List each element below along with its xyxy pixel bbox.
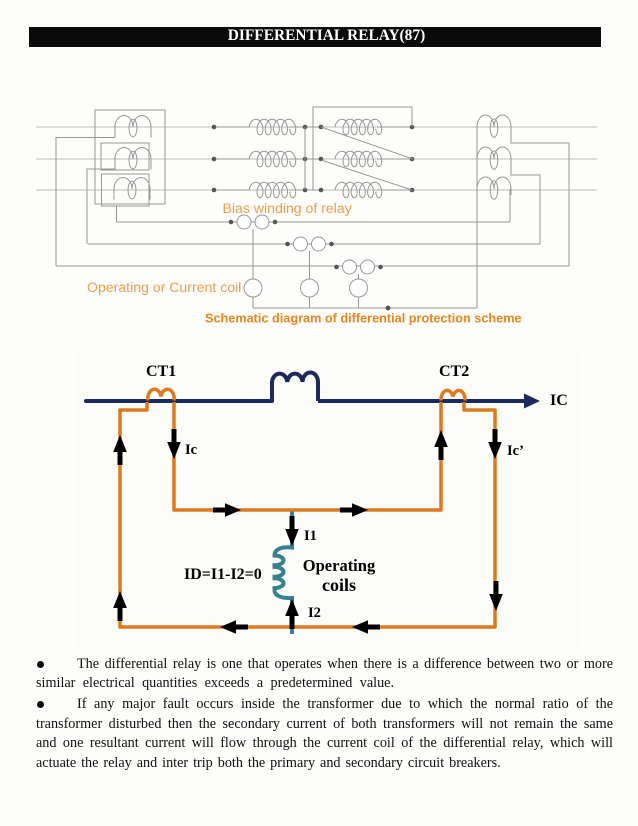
arrow up right inner [434, 430, 448, 460]
node dots left of coils [212, 125, 217, 193]
bias winding pair 3 [334, 260, 383, 274]
CT box left phase A [95, 110, 165, 204]
label CT1 [146, 363, 176, 380]
svg-text:Ic’: Ic’ [507, 443, 524, 459]
title bar DIFFERENTIAL RELAY(87) [29, 27, 601, 47]
bias winding pair 1 [229, 215, 278, 229]
operating coil 3 [350, 274, 368, 308]
wire orange right inner drop [292, 402, 441, 510]
label IC [550, 392, 568, 409]
diagram background panel [78, 352, 578, 648]
bullet text line 4 [36, 715, 613, 735]
operating coil 2 [301, 251, 319, 308]
wire phase line B [36, 158, 597, 160]
arrow up left outer bottom [113, 591, 127, 621]
node dot bottom bus [386, 306, 391, 311]
CT primary right phase B [477, 147, 511, 169]
label CT2 [439, 363, 469, 380]
CT box left phase B [101, 143, 149, 170]
arrow down right outer bottom [489, 581, 503, 611]
operating coil 1 [244, 229, 262, 308]
wire pilot line navy right [318, 399, 524, 403]
wire bias bus 3 [56, 265, 569, 267]
wire CT2 secondary to bus2 [87, 169, 115, 244]
svg-text:I2: I2 [308, 605, 321, 621]
relay coil right phase A [335, 119, 382, 135]
svg-text:Operating or Current coil: Operating or Current coil [87, 279, 241, 295]
svg-text:CT2: CT2 [439, 363, 469, 380]
svg-text:I1: I1 [304, 528, 317, 544]
arrow right mid left [213, 503, 241, 517]
label Bias winding of relay [223, 200, 353, 216]
restraint coil left phase A [249, 119, 296, 135]
wire phase line A [36, 126, 597, 128]
CT primary right phase A [477, 115, 511, 137]
label Operating or Current coil [87, 279, 241, 295]
svg-text:ID=I1-I2=0: ID=I1-I2=0 [184, 566, 262, 583]
wire bias bus 2 [88, 243, 540, 245]
wire pilot line navy left [86, 399, 272, 403]
arrow left bottom left [220, 620, 248, 634]
restraint coil left phase C [249, 182, 296, 198]
wire right CT3 secondary to bus1 [509, 189, 511, 222]
wire orange left outer loop [120, 402, 292, 627]
svg-text:IC: IC [550, 392, 568, 409]
wire operating bottom bus [253, 307, 477, 309]
label Ic-prime [507, 443, 524, 459]
bullet text line 2 [36, 674, 613, 694]
CT primary left phase C [114, 178, 150, 200]
wire delta bracket [313, 107, 412, 190]
CT primary right phase C [477, 177, 511, 199]
arrow down Ic current [167, 429, 181, 459]
wire right CT1 secondary to bus3 [511, 127, 569, 266]
label I1 [304, 528, 317, 544]
wire delta diagonal B-C [321, 160, 412, 190]
arrow right mid right [340, 503, 368, 517]
svg-text:CT1: CT1 [146, 363, 176, 380]
svg-text:Ic: Ic [185, 442, 198, 458]
wire CT3 secondary to bus1 [116, 206, 118, 222]
wire phase line C [36, 189, 597, 191]
wire delta diagonal A-B [321, 127, 413, 159]
transformer CT1 winding [148, 389, 174, 400]
bullet text line 1 [36, 655, 613, 675]
arrow up left outer top [113, 435, 127, 465]
relay coil right phase C [335, 182, 382, 198]
wire wye point vertical [304, 127, 306, 190]
wire right CT common leg [476, 127, 478, 308]
svg-text:Bias winding of relay: Bias winding of relay [223, 200, 353, 216]
svg-text:Schematic diagram of different: Schematic diagram of differential protec… [205, 312, 522, 326]
label I2 [308, 605, 321, 621]
inductor pilot middle [272, 373, 318, 402]
transformer CT2 winding [441, 390, 465, 400]
relay coil right phase B [335, 151, 382, 167]
label Ic [185, 442, 198, 458]
label Operating coils [303, 556, 376, 595]
wire orange right outer loop [292, 402, 495, 627]
arrow down I1 into coil [285, 516, 299, 546]
wire conductor segments dark [214, 127, 412, 190]
wire right CT2 secondary to bus2 [511, 159, 540, 244]
operating coil teal [275, 510, 293, 634]
CT box left phase C [102, 174, 150, 206]
arrowhead IC [524, 394, 540, 409]
node dots right of left coils [303, 125, 308, 193]
label ID=I1-I2=0 [184, 566, 262, 583]
CT primary left phase B [115, 148, 151, 170]
restraint coil left phase B [249, 151, 296, 167]
arrow up I2 into coil [285, 599, 299, 629]
svg-text:coils: coils [322, 575, 356, 595]
bias winding pair 2 [285, 237, 334, 251]
bullet text line 5 [36, 734, 613, 754]
svg-text:Operating: Operating [303, 556, 376, 575]
node dots left of right coils [319, 125, 324, 193]
wire bias bus 1 [117, 221, 511, 223]
arrow left bottom right [352, 620, 380, 634]
caption Schematic diagram of differential protection scheme [205, 312, 522, 326]
bullet text line 6 [36, 754, 613, 774]
CT primary left phase A [115, 116, 151, 138]
wire orange left inner drop [174, 402, 292, 510]
node dots right of right coils [410, 125, 415, 193]
wire CT1 secondary to bus3 [56, 138, 115, 267]
arrow down Ic-prime current [488, 429, 502, 459]
bullet text line 3 [36, 695, 613, 715]
